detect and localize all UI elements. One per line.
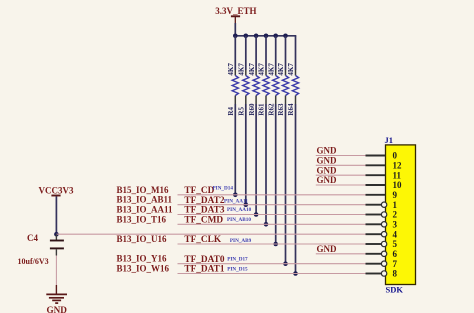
wire net TF_DAT3 — [178, 214, 366, 216]
svg-text:PIN_AB10: PIN_AB10 — [227, 217, 251, 223]
capacitor C4 — [50, 234, 64, 255]
svg-text:4K7: 4K7 — [267, 63, 275, 76]
connector pin 1 — [366, 200, 398, 210]
svg-text:TF_CD: TF_CD — [184, 186, 214, 196]
wire from R60 to signal line — [255, 104, 257, 215]
ground symbol GND — [46, 294, 67, 303]
wire from R5 to signal line — [245, 104, 247, 205]
svg-text:10: 10 — [393, 180, 403, 190]
svg-text:PIN_AB9: PIN_AB9 — [230, 238, 252, 244]
ground net wire + label GND at pin 6 — [316, 244, 366, 254]
svg-text:C4: C4 — [27, 233, 38, 243]
svg-text:GND: GND — [317, 244, 338, 254]
svg-text:TF_DAT3: TF_DAT3 — [184, 206, 224, 216]
svg-text:PIN_D14: PIN_D14 — [213, 185, 234, 191]
resistor R64 4K7 pull-up — [287, 36, 298, 276]
wire VCC net to connector pin 4 — [56, 233, 365, 235]
connector pin 3 — [366, 219, 398, 229]
ground net wire + label GND at pin 10 — [316, 175, 366, 185]
connector pin 11 — [366, 170, 402, 180]
svg-text:3.3V_ETH: 3.3V_ETH — [215, 6, 256, 16]
svg-text:GND: GND — [317, 165, 338, 175]
resistor R60 4K7 pull-up — [248, 36, 259, 217]
svg-text:TF_CLK: TF_CLK — [184, 235, 221, 245]
svg-text:1: 1 — [393, 200, 398, 210]
wire from R62 to signal line — [275, 104, 277, 244]
svg-text:4K7: 4K7 — [248, 63, 256, 76]
resistor R63 4K7 pull-up — [277, 36, 288, 266]
resistor R61 4K7 pull-up — [258, 36, 269, 227]
wire from R4 to signal line — [234, 104, 236, 195]
junction dot bus/R61 — [264, 34, 269, 39]
wire from R64 to signal line — [295, 104, 297, 274]
wire net TF_DAT2 — [178, 204, 366, 206]
ground net wire + label GND at pin 11 — [316, 165, 366, 175]
svg-text:0: 0 — [393, 151, 398, 161]
svg-text:TF_DAT2: TF_DAT2 — [184, 196, 224, 206]
pull-up bus wire — [235, 35, 297, 37]
junction dot R62/signal — [273, 242, 278, 247]
junction dot bus/R4 — [233, 34, 238, 39]
wire net TF_DAT0 — [178, 263, 366, 265]
svg-text:9: 9 — [393, 190, 398, 200]
svg-text:R4: R4 — [227, 107, 235, 116]
svg-text:TF_DAT1: TF_DAT1 — [184, 265, 224, 275]
svg-text:10uf/6V3: 10uf/6V3 — [18, 257, 49, 266]
svg-text:5: 5 — [393, 239, 398, 249]
connector pin 9 — [366, 190, 398, 200]
svg-text:B13_IO_W16: B13_IO_W16 — [117, 264, 170, 274]
svg-text:SDK: SDK — [386, 285, 404, 295]
wire VCC3V3 to C4 — [55, 196, 57, 234]
resistor R5 4K7 pull-up — [238, 36, 249, 207]
svg-text:R63: R63 — [277, 103, 285, 116]
wire C4 to ground — [55, 256, 57, 286]
svg-text:GND: GND — [317, 146, 338, 156]
junction dot R60/signal — [254, 212, 259, 217]
junction dot bus/R62 — [273, 34, 278, 39]
svg-text:PIN_D15: PIN_D15 — [227, 266, 248, 272]
svg-text:12: 12 — [393, 160, 403, 170]
svg-text:R60: R60 — [248, 103, 256, 116]
wire net TF_CD — [178, 194, 366, 196]
svg-text:B13_IO_T16: B13_IO_T16 — [117, 214, 167, 224]
svg-text:B15_IO_M16: B15_IO_M16 — [117, 185, 170, 195]
junction dot bus/R63 — [283, 34, 288, 39]
ground net wire + label GND at pin 12 — [316, 156, 366, 166]
junction dot R61/signal — [264, 222, 269, 227]
resistor R62 4K7 pull-up — [267, 36, 278, 247]
svg-text:PIN_AA10: PIN_AA10 — [227, 207, 252, 213]
svg-text:6: 6 — [393, 249, 398, 259]
svg-text:B13_IO_U16: B13_IO_U16 — [117, 234, 168, 244]
wire from R63 to signal line — [285, 104, 287, 264]
svg-text:J1: J1 — [385, 135, 394, 145]
power port 3.3V_ETH — [215, 6, 256, 24]
svg-text:11: 11 — [393, 170, 402, 180]
connector pin 2 — [366, 210, 398, 220]
junction dot VCC/C4/pin4 wire — [54, 232, 59, 237]
junction dot bus/R60 — [254, 34, 259, 39]
resistor R4 4K7 pull-up — [227, 36, 238, 197]
svg-text:TF_CMD: TF_CMD — [184, 216, 223, 226]
svg-text:GND: GND — [317, 156, 338, 166]
connector pin 8 — [366, 269, 398, 279]
svg-text:R64: R64 — [287, 103, 295, 116]
wire from R61 to signal line — [265, 104, 267, 224]
svg-text:PIN_AA11: PIN_AA11 — [224, 198, 248, 204]
connector pin 4 — [366, 229, 398, 239]
svg-text:7: 7 — [393, 259, 398, 269]
connector pin 10 — [366, 180, 403, 190]
svg-text:4K7: 4K7 — [258, 63, 266, 76]
wire net TF_DAT1 — [178, 273, 366, 275]
svg-text:4K7: 4K7 — [287, 63, 295, 76]
svg-text:3: 3 — [393, 219, 398, 229]
svg-text:PIN_D17: PIN_D17 — [227, 257, 248, 263]
svg-text:4K7: 4K7 — [238, 63, 246, 76]
connector pin 5 — [366, 239, 398, 249]
svg-text:B13_IO_Y16: B13_IO_Y16 — [117, 254, 168, 264]
svg-text:2: 2 — [393, 210, 398, 220]
connector pin 6 — [366, 249, 398, 259]
svg-text:VCC3V3: VCC3V3 — [39, 185, 74, 195]
svg-text:R61: R61 — [258, 103, 266, 116]
wire net TF_CLK — [178, 243, 366, 245]
svg-text:R62: R62 — [267, 103, 275, 116]
junction dot R4/signal — [233, 193, 238, 198]
svg-text:4K7: 4K7 — [227, 63, 235, 76]
svg-text:4: 4 — [393, 229, 398, 239]
connector pin 7 — [366, 259, 398, 269]
connector pin 12 — [366, 160, 403, 170]
svg-text:R5: R5 — [238, 107, 246, 116]
svg-text:4K7: 4K7 — [277, 63, 285, 76]
svg-text:8: 8 — [393, 269, 398, 279]
wire from 3.3V_ETH to pull-up bus — [234, 23, 236, 36]
connector J1 body — [386, 145, 416, 285]
svg-text:GND: GND — [46, 305, 67, 313]
junction dot bus/R5 — [244, 34, 249, 39]
junction dot R64/signal — [293, 271, 298, 276]
svg-text:GND: GND — [317, 175, 338, 185]
svg-text:TF_DAT0: TF_DAT0 — [184, 255, 224, 265]
wire net TF_CMD — [178, 223, 366, 225]
power port VCC3V3 — [39, 185, 74, 195]
junction dot R5/signal — [244, 202, 249, 207]
svg-text:B13_IO_AA11: B13_IO_AA11 — [117, 205, 174, 215]
junction dot R63/signal — [283, 261, 288, 266]
ground net wire + label GND at pin 0 — [316, 146, 366, 156]
svg-text:B13_IO_AB11: B13_IO_AB11 — [117, 195, 173, 205]
connector pin 0 — [366, 151, 398, 161]
